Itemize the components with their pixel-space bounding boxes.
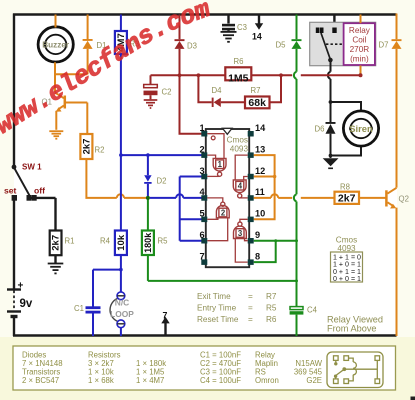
svg-text:R4: R4	[100, 236, 111, 245]
svg-text:6: 6	[199, 230, 204, 240]
svg-text:From Above: From Above	[327, 324, 377, 334]
svg-text:2 × BC547: 2 × BC547	[22, 376, 59, 385]
svg-text:(min): (min)	[350, 55, 369, 64]
svg-text:3: 3	[199, 166, 204, 176]
svg-text:C4: C4	[307, 305, 318, 314]
svg-text:R5: R5	[266, 304, 277, 313]
svg-text:C3: C3	[237, 23, 247, 32]
svg-text:14: 14	[252, 32, 262, 42]
svg-text:C1: C1	[74, 304, 84, 313]
svg-text:Omron: Omron	[255, 376, 279, 385]
svg-text:Relay: Relay	[349, 26, 371, 35]
svg-text:14: 14	[255, 123, 266, 133]
svg-text:7: 7	[199, 251, 204, 261]
svg-text:9v: 9v	[20, 298, 33, 310]
svg-text:Entry Time: Entry Time	[197, 304, 237, 313]
svg-text:9: 9	[255, 230, 260, 240]
svg-text:12: 12	[255, 166, 265, 176]
svg-text:11: 11	[255, 187, 265, 197]
svg-text:2k7: 2k7	[338, 193, 356, 205]
svg-text:2: 2	[221, 208, 226, 217]
svg-text:4: 4	[199, 187, 205, 197]
svg-text:10: 10	[255, 209, 265, 219]
svg-text:R7: R7	[251, 86, 261, 95]
svg-text:set: set	[4, 185, 17, 195]
svg-text:7: 7	[163, 311, 168, 321]
svg-text:R7: R7	[266, 292, 277, 301]
svg-text:+: +	[18, 281, 24, 292]
svg-text:Cmos: Cmos	[227, 135, 248, 144]
svg-text:R2: R2	[95, 145, 105, 154]
svg-text:R6: R6	[234, 57, 244, 66]
svg-text:8: 8	[255, 251, 260, 261]
svg-text:=: =	[248, 292, 253, 301]
svg-text:N/C: N/C	[115, 298, 129, 308]
svg-text:SW 1: SW 1	[22, 163, 42, 172]
svg-text:68k: 68k	[248, 97, 266, 109]
svg-text:D6: D6	[315, 124, 325, 133]
svg-text:Q2: Q2	[399, 194, 409, 203]
svg-text:C2: C2	[162, 87, 172, 96]
svg-text:Coil: Coil	[352, 36, 366, 45]
svg-text:180k: 180k	[143, 232, 153, 253]
svg-text:off: off	[34, 185, 45, 195]
svg-text:D5: D5	[276, 41, 287, 50]
svg-text:1 × 68k: 1 × 68k	[88, 376, 114, 385]
svg-text:4093: 4093	[230, 144, 249, 153]
svg-text:R6: R6	[266, 315, 277, 324]
svg-text:R8: R8	[340, 182, 350, 191]
svg-text:D2: D2	[157, 176, 167, 185]
svg-text:1M5: 1M5	[228, 72, 249, 84]
svg-text:Reset Time: Reset Time	[197, 315, 239, 324]
svg-text:Siren: Siren	[349, 123, 373, 134]
svg-text:270R: 270R	[350, 45, 370, 54]
svg-text:4: 4	[238, 182, 243, 191]
svg-text:2k7: 2k7	[51, 235, 62, 251]
svg-text:0 + 0 = 1: 0 + 0 = 1	[333, 275, 361, 283]
svg-text:LOOP: LOOP	[110, 309, 134, 319]
svg-text:Exit Time: Exit Time	[197, 292, 231, 301]
svg-text:1: 1	[199, 123, 204, 133]
svg-text:R5: R5	[158, 236, 169, 245]
svg-text:10k: 10k	[116, 234, 127, 251]
svg-text:=: =	[248, 304, 253, 313]
svg-text:3: 3	[238, 229, 243, 238]
svg-text:5: 5	[199, 209, 204, 219]
svg-text:C4 = 100uF: C4 = 100uF	[200, 376, 241, 385]
svg-text:2: 2	[199, 144, 204, 154]
svg-text:D4: D4	[212, 86, 223, 95]
svg-text:=: =	[248, 315, 253, 324]
svg-text:13: 13	[255, 144, 265, 154]
svg-text:D3: D3	[187, 41, 197, 50]
svg-text:G2E: G2E	[306, 376, 322, 385]
svg-text:R1: R1	[65, 236, 75, 245]
svg-text:1: 1	[218, 160, 223, 169]
svg-text:1 × 4M7: 1 × 4M7	[136, 376, 164, 385]
svg-text:D7: D7	[379, 41, 389, 50]
svg-text:2k7: 2k7	[81, 139, 92, 155]
svg-text:Buzzer: Buzzer	[42, 40, 70, 49]
